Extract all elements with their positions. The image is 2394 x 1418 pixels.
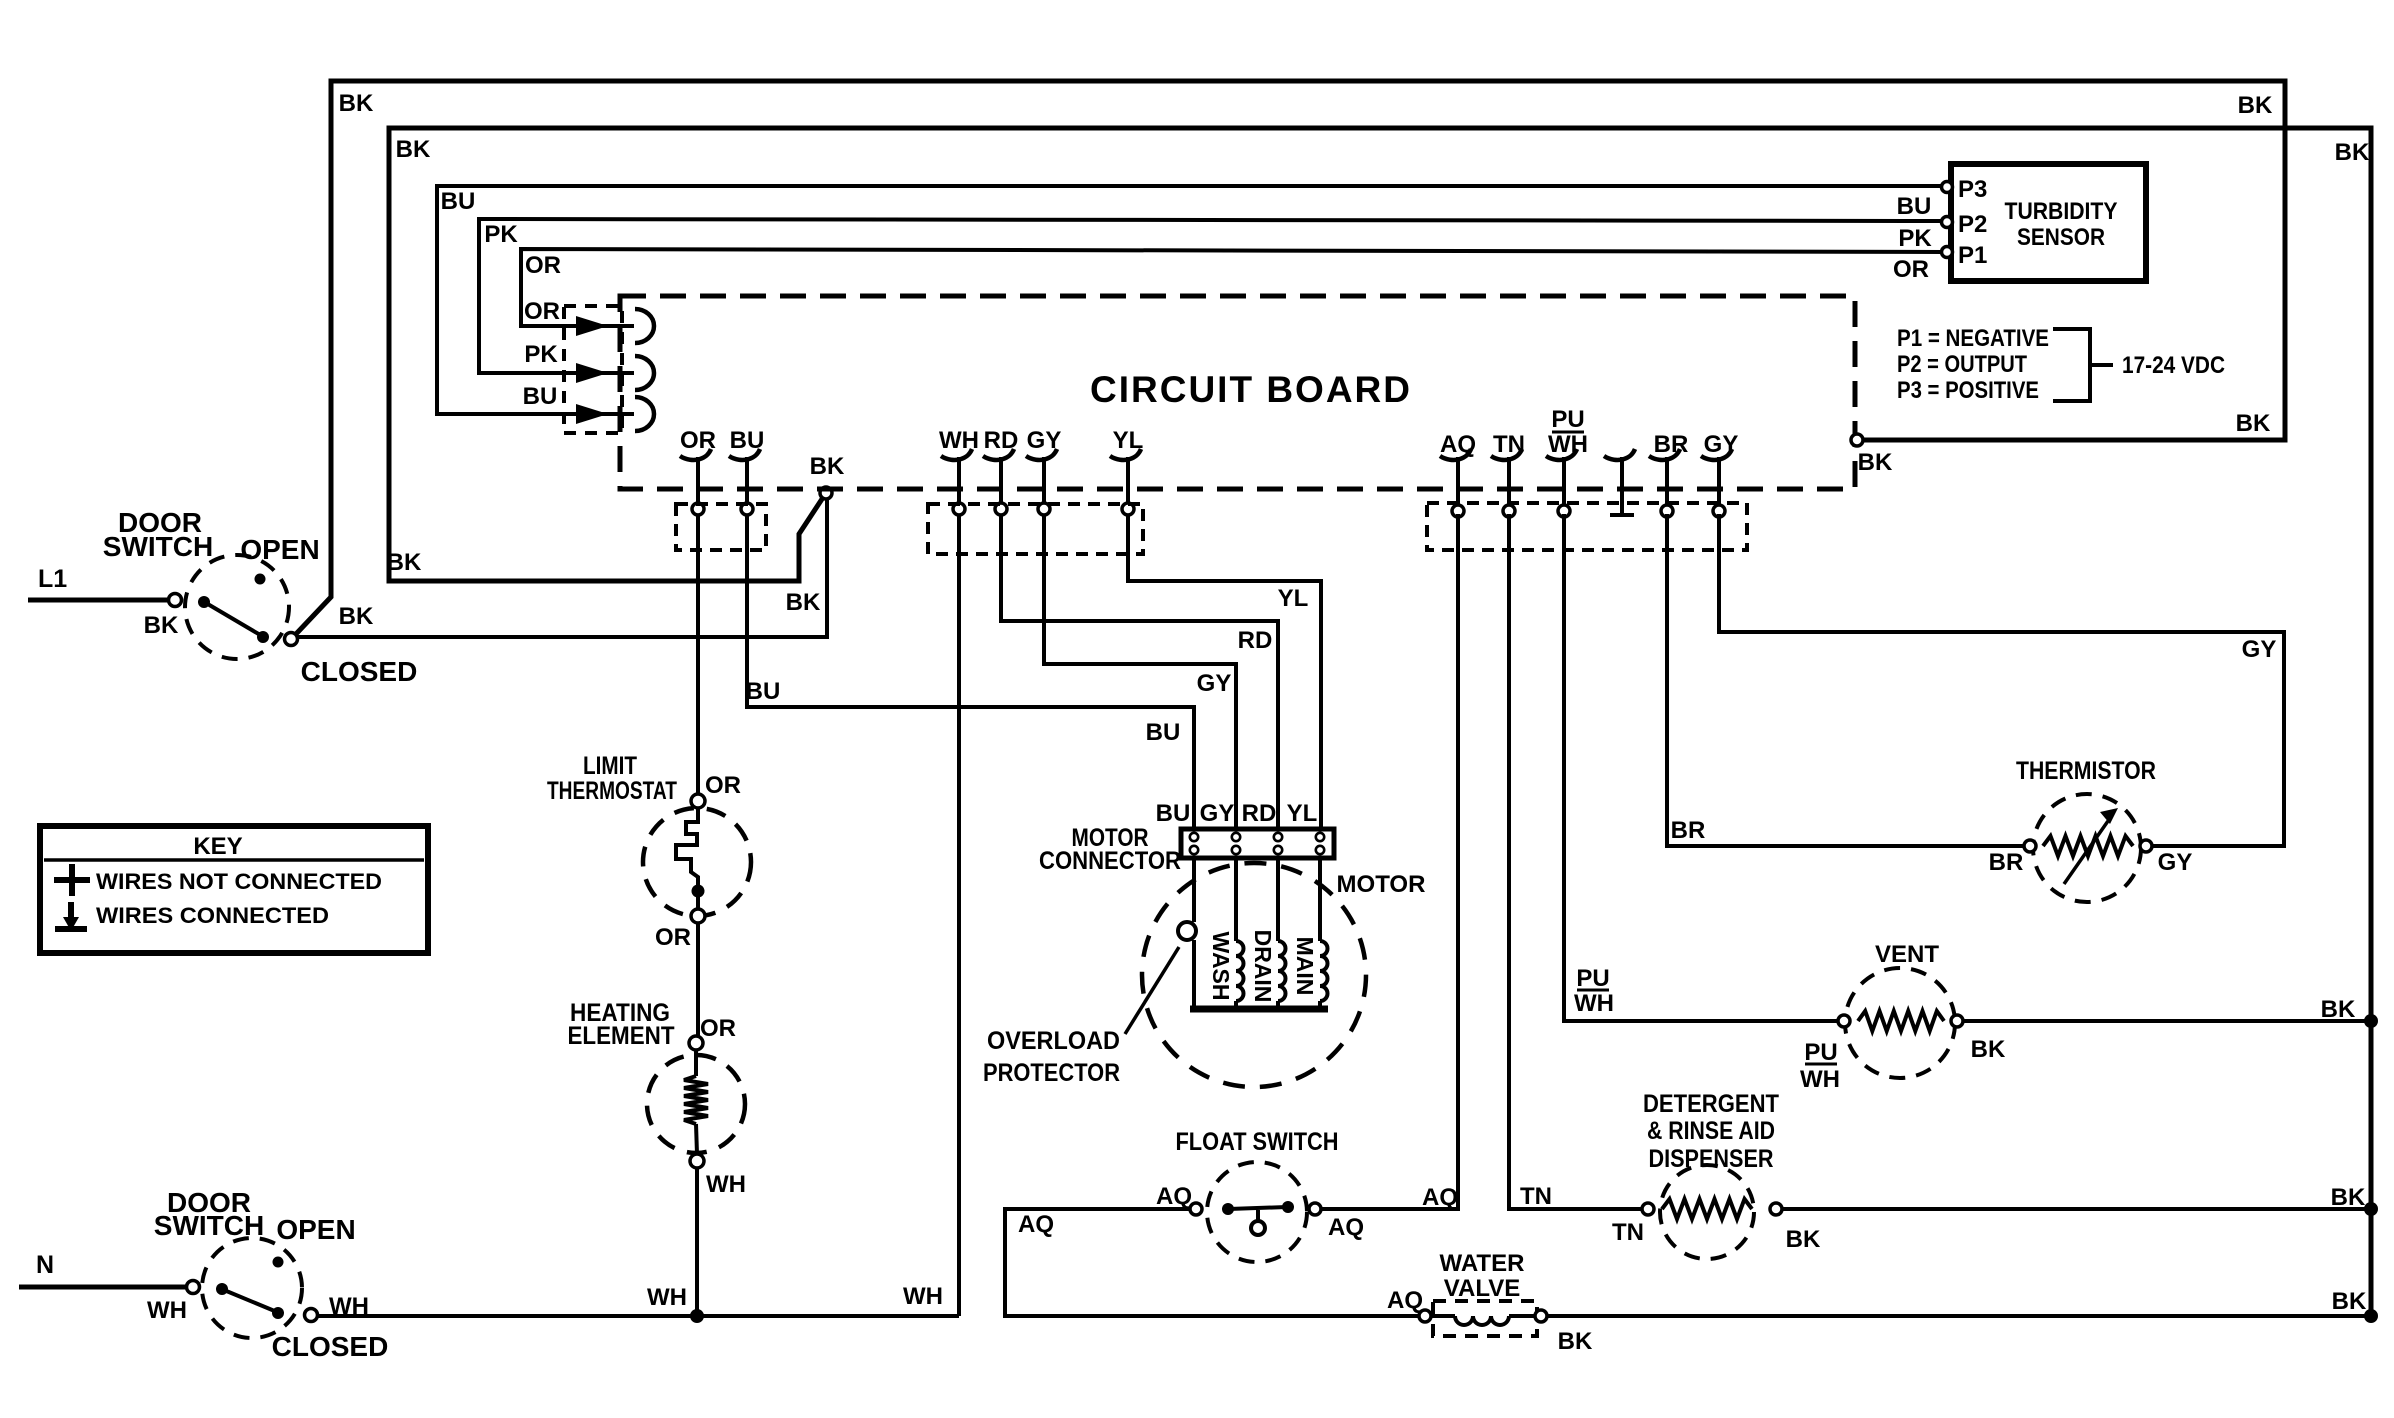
- svg-text:PK: PK: [524, 341, 558, 368]
- svg-text:BK: BK: [339, 603, 374, 630]
- svg-text:BK: BK: [2332, 1288, 2367, 1315]
- svg-text:BK: BK: [2236, 410, 2271, 437]
- wire RD: board RD pin to motor connector: [1001, 514, 1278, 829]
- wire AQ: board AQ pin down to float switch: [1321, 514, 1458, 1209]
- connector: dashed housing for OR/BU pins: [676, 504, 766, 550]
- wire BK: water valve to far right edge: [1547, 1314, 2371, 1318]
- wire BK: door switch to outer loop, top run and right edge to circuit board BK pin: [296, 81, 2285, 634]
- svg-text:WH: WH: [1548, 431, 1588, 458]
- pin OR of circuit board: [680, 449, 711, 460]
- motor winding MAIN: [1318, 858, 1322, 941]
- door switch S2 (lower, in N line): [19, 1285, 190, 1290]
- connector: small dashed plug housing for OR/PK/BU arrows: [564, 306, 622, 433]
- svg-text:SWITCH: SWITCH: [154, 1210, 264, 1241]
- svg-text:CLOSED: CLOSED: [301, 656, 418, 687]
- svg-text:BU: BU: [1146, 719, 1181, 746]
- wire BK: door switch to circuit board bottom BK terminal: [297, 498, 827, 637]
- svg-text:YL: YL: [1278, 585, 1309, 612]
- svg-text:BK: BK: [1786, 1226, 1821, 1253]
- svg-text:BK: BK: [144, 612, 179, 639]
- svg-text:WATER: WATER: [1440, 1250, 1525, 1277]
- svg-text:WH: WH: [1574, 990, 1614, 1017]
- svg-text:ELEMENT: ELEMENT: [568, 1022, 675, 1050]
- terminal: circuit board BK right-edge terminal: [1851, 434, 1863, 446]
- svg-text:WIRES CONNECTED: WIRES CONNECTED: [96, 903, 329, 928]
- svg-text:WH: WH: [1800, 1066, 1840, 1093]
- svg-text:THERMOSTAT: THERMOSTAT: [547, 777, 677, 805]
- water valve solenoid L1v: [1433, 1301, 1537, 1336]
- svg-text:L1: L1: [38, 565, 67, 593]
- svg-text:WH: WH: [939, 427, 979, 454]
- vent heater R3: [1845, 968, 1955, 1078]
- svg-text:WH: WH: [903, 1283, 943, 1310]
- junction: dispenser BK to right edge: [2364, 1202, 2378, 1216]
- wire WH: neutral bottom run from door switch to WH board wire: [311, 1314, 959, 1318]
- turbidity sensor U1 box: [1951, 164, 2146, 281]
- svg-text:BK: BK: [1971, 1036, 2006, 1063]
- svg-text:WH: WH: [329, 1293, 369, 1320]
- svg-text:KEY: KEY: [193, 833, 242, 860]
- svg-text:OR: OR: [525, 252, 561, 279]
- wire PK: circuit board to turbidity sensor P2: [479, 219, 1944, 373]
- detergent & rinse aid dispenser R2: [1660, 1165, 1754, 1259]
- junction arrows: wires connected into circuit board (OR, PK, BU): [604, 324, 634, 328]
- svg-text:GY: GY: [1200, 800, 1235, 827]
- svg-text:BU: BU: [523, 383, 558, 410]
- pin (unused) of circuit board: [1604, 449, 1635, 460]
- svg-text:GY: GY: [1197, 670, 1232, 697]
- wire BK: vent to far right edge: [1963, 1019, 2371, 1023]
- svg-text:WASH: WASH: [1208, 932, 1234, 1001]
- connector: dashed housing for WH/RD/GY/YL pins: [928, 504, 1143, 554]
- svg-text:GY: GY: [1704, 431, 1739, 458]
- svg-text:TURBIDITY: TURBIDITY: [2005, 198, 2118, 225]
- svg-text:WH: WH: [147, 1297, 187, 1324]
- key symbol: wires connected (arrow to bar): [68, 902, 74, 921]
- svg-text:TN: TN: [1493, 431, 1525, 458]
- svg-text:GY: GY: [2158, 849, 2193, 876]
- svg-text:AQ: AQ: [1018, 1211, 1054, 1238]
- pin TN of circuit board: [1491, 449, 1522, 460]
- svg-text:BK: BK: [2238, 92, 2273, 119]
- svg-text:PK: PK: [1898, 225, 1932, 252]
- svg-text:WH: WH: [647, 1284, 687, 1311]
- svg-text:P3 = POSITIVE: P3 = POSITIVE: [1897, 377, 2039, 404]
- svg-text:BU: BU: [746, 678, 781, 705]
- limit thermostat switch: [643, 808, 751, 916]
- svg-text:PU: PU: [1804, 1039, 1837, 1066]
- junction: water valve BK to right edge: [2364, 1309, 2378, 1323]
- svg-text:WIRES NOT CONNECTED: WIRES NOT CONNECTED: [96, 869, 382, 894]
- svg-text:BK: BK: [396, 136, 431, 163]
- svg-text:OPEN: OPEN: [276, 1214, 355, 1245]
- motor winding WASH: [1234, 858, 1238, 941]
- svg-text:CIRCUIT BOARD: CIRCUIT BOARD: [1090, 369, 1412, 410]
- motor connector J1: [1181, 829, 1334, 858]
- svg-text:BU: BU: [1897, 193, 1932, 220]
- svg-text:AQ: AQ: [1440, 431, 1476, 458]
- wire BK: dispenser to far right edge: [1782, 1207, 2371, 1211]
- svg-text:BU: BU: [730, 427, 765, 454]
- svg-text:VALVE: VALVE: [1444, 1275, 1520, 1302]
- pin AQ of circuit board: [1440, 449, 1471, 460]
- pin P1 of turbidity sensor: [1942, 247, 1953, 258]
- svg-text:FLOAT SWITCH: FLOAT SWITCH: [1176, 1128, 1339, 1156]
- terminal: circuit board BK bottom terminal: [820, 487, 832, 499]
- svg-text:BU: BU: [1156, 800, 1191, 827]
- svg-text:OR: OR: [700, 1015, 736, 1042]
- wire OR: limit thermostat to heating element: [696, 923, 700, 1036]
- wire BR: board BR pin down and right to thermistor: [1667, 514, 2024, 846]
- wire BU: board BU pin to motor connector: [747, 514, 1194, 829]
- svg-text:AQ: AQ: [1328, 1214, 1364, 1241]
- wire GY: board GY pin right loop to thermistor: [1719, 514, 2284, 846]
- svg-text:17-24 VDC: 17-24 VDC: [2122, 352, 2225, 379]
- svg-text:OR: OR: [680, 427, 716, 454]
- key box: [40, 826, 428, 953]
- svg-text:AQ: AQ: [1387, 1287, 1423, 1314]
- svg-text:LIMIT: LIMIT: [583, 752, 637, 780]
- svg-text:PROTECTOR: PROTECTOR: [983, 1059, 1120, 1087]
- svg-text:DRAIN: DRAIN: [1250, 930, 1276, 1003]
- svg-text:BK: BK: [2321, 996, 2356, 1023]
- motor M1 with windings: [1142, 863, 1366, 1087]
- svg-text:PK: PK: [484, 221, 518, 248]
- svg-text:BK: BK: [1858, 449, 1893, 476]
- overload protector in motor common lead: [1192, 858, 1196, 922]
- wire BK: circuit board BK terminal loop via left side to far right edge: [389, 128, 2371, 1316]
- wire AQ: float switch to water valve: [1005, 1209, 1419, 1316]
- svg-text:YL: YL: [1287, 800, 1318, 827]
- float switch S3: [1207, 1162, 1307, 1262]
- svg-text:BU: BU: [441, 188, 476, 215]
- junction: heating element WH to neutral line: [690, 1309, 704, 1323]
- svg-text:P1 = NEGATIVE: P1 = NEGATIVE: [1897, 325, 2049, 352]
- svg-text:YL: YL: [1113, 427, 1144, 454]
- wire OR: board to limit thermostat: [696, 514, 700, 795]
- svg-text:TN: TN: [1520, 1183, 1552, 1210]
- pin GY of circuit board: [1026, 449, 1057, 460]
- wire L1 lead (BK): [28, 598, 172, 603]
- heating element R1: [647, 1055, 745, 1153]
- circuit board dashed outline: [620, 296, 1855, 489]
- pin BU of circuit board: [729, 449, 760, 460]
- svg-text:OPEN: OPEN: [240, 534, 319, 565]
- svg-text:BR: BR: [1671, 817, 1706, 844]
- wire BU: circuit board to turbidity sensor P3: [437, 186, 1944, 414]
- svg-text:AQ: AQ: [1156, 1183, 1192, 1210]
- svg-text:OVERLOAD: OVERLOAD: [987, 1027, 1120, 1055]
- svg-text:BK: BK: [810, 453, 845, 480]
- svg-text:RD: RD: [984, 427, 1019, 454]
- svg-text:P1: P1: [1958, 242, 1987, 269]
- door switch S1 (upper, in L1 line): [185, 555, 289, 659]
- svg-text:BK: BK: [786, 589, 821, 616]
- svg-text:GY: GY: [1027, 427, 1062, 454]
- wire YL: board YL pin to motor connector: [1128, 514, 1321, 829]
- svg-text:THERMISTOR: THERMISTOR: [2016, 757, 2156, 785]
- svg-text:VENT: VENT: [1875, 941, 1939, 968]
- pin GY right of circuit board: [1701, 449, 1732, 460]
- wire GY: board GY pin to motor connector: [1044, 514, 1236, 829]
- svg-text:OR: OR: [1893, 256, 1929, 283]
- pin YL of circuit board: [1110, 449, 1141, 460]
- svg-text:P2: P2: [1958, 211, 1987, 238]
- svg-text:OR: OR: [705, 772, 741, 799]
- svg-text:SWITCH: SWITCH: [103, 531, 213, 562]
- svg-text:CONNECTOR: CONNECTOR: [1039, 847, 1181, 875]
- pin PU/WH of circuit board: [1546, 449, 1577, 460]
- wire PU/WH: board pin down to vent: [1564, 514, 1838, 1021]
- svg-text:BK: BK: [2335, 139, 2370, 166]
- connector: dashed housing for AQ/TN/PU-WH/BR/GY pins: [1427, 503, 1747, 550]
- pin P3 of turbidity sensor: [1942, 182, 1953, 193]
- pin BR of circuit board: [1649, 449, 1680, 460]
- svg-text:P2 = OUTPUT: P2 = OUTPUT: [1897, 351, 2027, 378]
- svg-text:P3: P3: [1958, 176, 1987, 203]
- svg-text:MOTOR: MOTOR: [1337, 871, 1426, 898]
- wire WH: circuit board WH pin down to neutral line: [957, 514, 961, 1316]
- svg-text:BK: BK: [339, 90, 374, 117]
- motor winding common bar: [1190, 1006, 1328, 1013]
- svg-text:WH: WH: [706, 1171, 746, 1198]
- svg-text:BK: BK: [2331, 1184, 2366, 1211]
- svg-text:DETERGENT: DETERGENT: [1643, 1090, 1779, 1118]
- svg-text:BK: BK: [387, 549, 422, 576]
- wire OR: circuit board to turbidity sensor P1: [521, 249, 1944, 326]
- svg-text:PU: PU: [1551, 406, 1584, 433]
- svg-text:OR: OR: [524, 298, 560, 325]
- svg-text:N: N: [36, 1251, 54, 1279]
- wire WH: heating element to neutral bottom line: [695, 1168, 699, 1316]
- svg-text:RD: RD: [1242, 800, 1277, 827]
- svg-text:BR: BR: [1989, 849, 2024, 876]
- pin WH of circuit board: [941, 449, 972, 460]
- pin RD of circuit board: [983, 449, 1014, 460]
- svg-text:GY: GY: [2242, 636, 2277, 663]
- thermistor RT1: [2033, 794, 2141, 902]
- svg-text:SENSOR: SENSOR: [2017, 224, 2105, 251]
- pin P2 of turbidity sensor: [1942, 217, 1953, 228]
- key symbol: wires not connected (cross): [69, 864, 75, 896]
- svg-text:RD: RD: [1238, 627, 1273, 654]
- svg-text:CLOSED: CLOSED: [272, 1331, 389, 1362]
- svg-text:TN: TN: [1612, 1219, 1644, 1246]
- svg-text:DISPENSER: DISPENSER: [1649, 1145, 1774, 1173]
- svg-text:BK: BK: [1558, 1328, 1593, 1355]
- junction: vent BK to right edge: [2364, 1014, 2378, 1028]
- wire TN: board TN pin down to dispenser: [1509, 514, 1642, 1209]
- svg-text:MAIN: MAIN: [1292, 937, 1318, 996]
- svg-text:& RINSE AID: & RINSE AID: [1647, 1117, 1775, 1145]
- motor winding DRAIN: [1276, 858, 1280, 941]
- svg-text:OR: OR: [655, 924, 691, 951]
- svg-text:AQ: AQ: [1422, 1184, 1458, 1211]
- svg-text:PU: PU: [1576, 965, 1609, 992]
- svg-text:BR: BR: [1654, 431, 1689, 458]
